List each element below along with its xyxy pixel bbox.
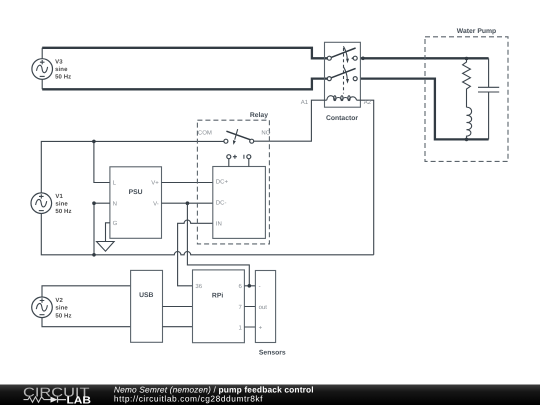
svg-text:50 Hz: 50 Hz: [55, 74, 71, 81]
svg-text:IN: IN: [216, 220, 222, 227]
svg-text:COM: COM: [198, 129, 212, 136]
svg-text:V+: V+: [151, 180, 159, 187]
svg-text:A1: A1: [301, 99, 309, 106]
svg-text:sine: sine: [55, 201, 68, 208]
svg-text:V3: V3: [55, 58, 63, 65]
svg-text:50 Hz: 50 Hz: [55, 312, 71, 319]
svg-text:DC+: DC+: [216, 179, 229, 186]
svg-text:Relay: Relay: [250, 112, 268, 119]
svg-text:50 Hz: 50 Hz: [55, 208, 71, 215]
svg-text:sine: sine: [55, 66, 68, 73]
svg-text:NO: NO: [261, 129, 270, 136]
svg-text:-: -: [259, 284, 261, 290]
svg-text:N: N: [113, 200, 117, 207]
svg-text:A2: A2: [364, 99, 372, 106]
svg-text:G: G: [113, 220, 118, 227]
svg-text:http://circuitlab.com/cg28ddum: http://circuitlab.com/cg28ddumtr8kf: [114, 394, 263, 404]
svg-text:DC-: DC-: [216, 200, 227, 207]
svg-text:V-: V-: [153, 200, 159, 207]
svg-text:out: out: [259, 305, 268, 311]
svg-text:sine: sine: [55, 305, 68, 312]
svg-text:USB: USB: [139, 292, 153, 299]
svg-text:+: +: [259, 325, 263, 331]
svg-text:LAB: LAB: [67, 395, 92, 405]
svg-text:Sensors: Sensors: [259, 349, 286, 356]
svg-text:Water Pump: Water Pump: [457, 28, 496, 35]
svg-text:V2: V2: [55, 297, 63, 304]
svg-text:Contactor: Contactor: [326, 115, 358, 122]
svg-text:V1: V1: [55, 193, 63, 200]
svg-text:PSU: PSU: [129, 189, 143, 196]
svg-text:RPi: RPi: [212, 292, 223, 299]
svg-text:36: 36: [195, 283, 202, 290]
